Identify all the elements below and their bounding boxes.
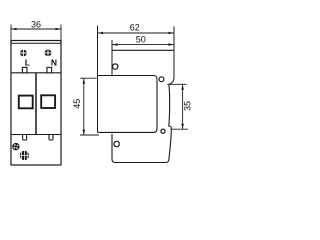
window module 2 xyxy=(41,95,55,108)
slot under N xyxy=(47,67,52,72)
svg-text:35: 35 xyxy=(183,101,193,111)
bottom screw large xyxy=(20,151,29,160)
side view: 50 extension + module left edge xyxy=(111,40,113,76)
dim 35 arrow down xyxy=(181,124,184,129)
dim 62 line xyxy=(98,32,175,34)
module divider xyxy=(35,73,37,135)
svg-text:50: 50 xyxy=(136,34,146,44)
dim 45 tick bottom xyxy=(80,134,99,136)
terminal section base line xyxy=(11,72,61,74)
base bottom line xyxy=(98,131,154,133)
slot under L xyxy=(22,67,27,72)
front view outline xyxy=(11,41,61,166)
tab 2 xyxy=(49,135,53,141)
stub bottom bump xyxy=(169,126,172,129)
dim 36 arrow left xyxy=(11,28,16,31)
svg-text:N: N xyxy=(51,57,57,67)
side view module top xyxy=(112,49,174,51)
latch circle bottom left xyxy=(114,141,119,146)
svg-text:36: 36 xyxy=(31,19,41,29)
dim 36 arrow right xyxy=(56,28,61,31)
bottom screw small xyxy=(13,143,19,149)
dim 36 line xyxy=(11,28,61,30)
dim 45 line xyxy=(83,78,85,135)
module corner to stub xyxy=(169,78,174,85)
side view: front ext + module right edge xyxy=(173,26,175,78)
svg-text:L: L xyxy=(25,57,30,67)
svg-text:45: 45 xyxy=(72,99,82,109)
window module 1 xyxy=(19,96,33,109)
dim 45 arrow up xyxy=(83,79,86,84)
screw terminal N xyxy=(45,49,52,56)
dim 35 arrow up xyxy=(181,85,184,90)
top cap seam xyxy=(11,42,61,44)
tab 1 xyxy=(23,135,27,141)
dim 36 extension right xyxy=(60,25,62,41)
screw terminal L xyxy=(20,50,27,57)
side view module bottom / base top xyxy=(98,76,158,80)
dim 45 arrow down xyxy=(83,130,86,135)
dim 35 line xyxy=(182,84,184,129)
dim 36 extension left xyxy=(10,25,12,41)
dim 35 tick top xyxy=(167,83,186,85)
dim 62 arrow right xyxy=(169,32,174,35)
latch circle mid right xyxy=(159,77,164,82)
module stub front face xyxy=(168,84,171,126)
bottom section line xyxy=(11,134,61,136)
dim 50 arrow left xyxy=(112,43,117,46)
side view: 62 extension + rear edge xyxy=(97,26,99,133)
base front edge xyxy=(153,79,157,132)
dim 45 tick top xyxy=(80,77,96,79)
dim 35 tick bottom xyxy=(171,128,188,130)
dim 50 arrow right xyxy=(169,43,174,46)
svg-text:62: 62 xyxy=(130,23,140,33)
dim 62 arrow left xyxy=(98,32,103,35)
latch circle bottom right xyxy=(161,129,165,133)
latch circle top xyxy=(113,64,118,69)
bottom terminal block xyxy=(112,130,171,163)
dim 50 line xyxy=(112,44,174,46)
